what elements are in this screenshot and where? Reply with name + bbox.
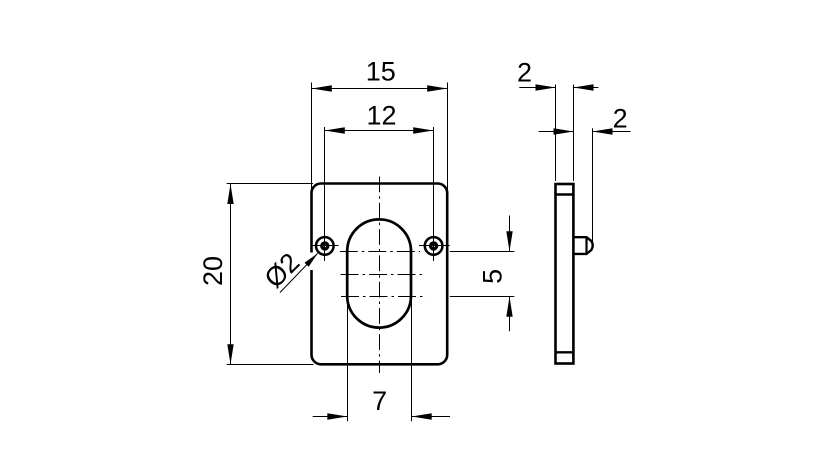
side dimension 2a line left part xyxy=(519,87,555,89)
dimension 5 line upper part xyxy=(509,216,511,252)
dimension 20 extension line bottom xyxy=(227,364,314,366)
right hole vertical centerline / ext line for 12 xyxy=(433,127,435,261)
side dimension 2b right arrow xyxy=(593,128,613,134)
right hole inner circle xyxy=(431,243,437,249)
side dimension 2a left arrow xyxy=(536,84,556,90)
side view plate outline xyxy=(556,184,574,364)
dimension 15 right arrow xyxy=(427,85,447,91)
dimension 15 extension line left xyxy=(311,83,313,194)
svg-text:2: 2 xyxy=(517,58,532,88)
side view top corner edge line xyxy=(556,193,574,195)
side dimension 2b left arrow xyxy=(554,128,574,134)
dimension 12 line xyxy=(325,130,434,132)
gap in plate edge where leader crosses xyxy=(309,253,314,271)
dimension 20 line xyxy=(230,184,232,365)
dimension 5 upper extension line xyxy=(450,251,515,253)
side dimension 2b line left part xyxy=(539,131,574,133)
right hole horizontal centerline xyxy=(419,245,450,247)
left hole outer circle xyxy=(316,237,334,255)
svg-text:20: 20 xyxy=(198,256,228,286)
dimension 7 line left part xyxy=(313,416,348,418)
dimension 20 extension line top xyxy=(227,183,313,185)
side view pin base edge line xyxy=(585,237,587,254)
slot horizontal mid centerline xyxy=(341,274,425,276)
dimension 20 bottom arrow xyxy=(227,344,233,364)
dimension 7 line right part xyxy=(412,416,451,418)
side dimension 2a line right part xyxy=(573,87,598,89)
svg-text:7: 7 xyxy=(372,386,387,416)
slot top arc centerline xyxy=(340,251,420,253)
side dimension 2b extension line right xyxy=(592,128,594,242)
right hole outer circle xyxy=(425,237,443,255)
side view bottom corner edge line xyxy=(556,351,574,353)
side view pin bump outline xyxy=(574,237,592,254)
dimension 7 left arrow xyxy=(327,413,347,419)
dimension 15 left arrow xyxy=(312,85,332,91)
side dimension 2a extension line right (shared) xyxy=(573,85,575,182)
dimension 7 extension line left xyxy=(347,299,349,421)
left hole horizontal centerline xyxy=(311,245,339,247)
main vertical centerline xyxy=(379,177,381,374)
slot obround outline xyxy=(347,219,411,327)
dimension 5 bottom arrow xyxy=(506,297,512,317)
slot bottom arc centerline xyxy=(341,296,427,298)
dimension 15 extension line right xyxy=(447,83,449,194)
diameter 2 leader line xyxy=(280,253,318,292)
front view plate outline xyxy=(312,184,448,365)
dimension 5 line lower part xyxy=(509,297,511,332)
dimension 5 top arrow xyxy=(506,231,512,251)
left hole inner circle xyxy=(322,243,328,249)
dimension 20 top arrow xyxy=(227,184,233,204)
dimension 12 left arrow xyxy=(325,127,345,133)
dimension 12 right arrow xyxy=(413,127,433,133)
svg-text:12: 12 xyxy=(366,101,396,131)
left hole vertical centerline / ext line for 12 xyxy=(324,127,326,261)
dimension 15 line xyxy=(312,88,448,90)
dimension 7 extension line right xyxy=(411,299,413,421)
svg-text:5: 5 xyxy=(478,269,508,284)
side dimension 2a right arrow xyxy=(574,84,594,90)
dimension 7 right arrow xyxy=(412,413,432,419)
side dimension 2b line right part xyxy=(593,131,631,133)
side dimension 2a extension line left xyxy=(555,85,557,182)
dimension 5 lower extension line xyxy=(450,296,515,298)
svg-text:2: 2 xyxy=(613,104,628,134)
svg-text:15: 15 xyxy=(366,57,396,87)
diameter 2 leader arrow xyxy=(305,253,318,266)
